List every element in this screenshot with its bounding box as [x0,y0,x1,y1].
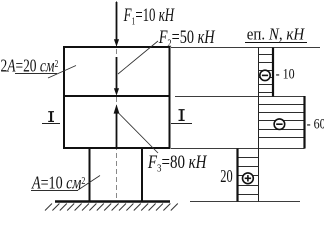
leader line A label [78,176,100,191]
section mark I left [42,112,60,124]
centerline (dashed axis of column) [116,1,118,201]
N bar -10 edge [272,48,274,97]
section level line lower [171,148,305,150]
force F1 arrow [114,2,119,47]
ground line [55,200,170,202]
underline of A label [31,190,78,192]
section mark I right [171,110,192,124]
svg-text:F3=80 кН: F3=80 кН [147,152,207,175]
N diagram baseline [258,48,260,202]
divider line between block halves [63,95,171,97]
N bar -60 hatching [259,105,305,138]
force F3 arrow [114,104,120,148]
svg-text:- 60: - 60 [307,115,324,131]
svg-text:20: 20 [220,167,233,187]
label A=10 cm2 [31,174,86,193]
value label -60 [307,115,324,131]
ground hatching [45,204,178,211]
label 2A=20 cm2 [1,57,59,76]
minus sign circle in -10 bar [260,70,270,80]
lower block (A section) [90,148,143,202]
diagram title ep. N, kN [247,26,306,44]
value label 20 [220,167,233,187]
force F1 label [123,6,176,28]
leader line F3 [119,113,159,153]
underline of diagram title [245,42,307,44]
underline of 2A label [15,73,57,75]
N bar +20 edge [236,149,238,202]
value label -10 [276,66,295,82]
N bar -60 edge [303,96,305,149]
svg-text:- 10: - 10 [276,66,295,82]
force F3 label [147,152,207,175]
leader line 2A label [48,66,76,79]
upper block (2A section) [64,47,170,148]
N bar +20 hatching [238,158,259,195]
N bar -10 hatching [259,55,274,93]
minus sign circle in -60 bar [274,119,285,130]
force F2 arrow [114,57,119,96]
svg-text:F1=10 кН: F1=10 кН [123,6,176,28]
force F2 label [158,26,216,50]
section level line bottom [190,201,300,203]
leader line F2 [118,41,158,74]
plus sign circle in +20 bar [243,173,254,184]
svg-text:2A=20 см2: 2A=20 см2 [1,57,59,76]
svg-text:еп. N, кН: еп. N, кН [247,26,306,44]
section level line top [171,47,320,49]
svg-text:F2=50 кН: F2=50 кН [158,26,216,50]
section level line middle [175,96,305,98]
